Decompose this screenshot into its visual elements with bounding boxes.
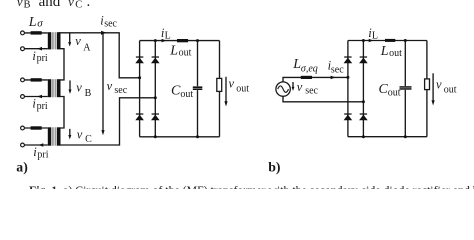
transformer A primary winding: [48, 32, 52, 49]
svg-text:and: and: [39, 0, 61, 10]
arrow i_pri C: [39, 143, 44, 147]
wire secondary series link B-C: [60, 97, 64, 129]
label C_out (b): [379, 82, 401, 99]
label i_L (a): [161, 26, 171, 42]
transformer C secondary winding: [57, 127, 61, 145]
diode D8 (b, right lower): [359, 113, 368, 120]
svg-text:v: v: [68, 0, 74, 9]
svg-text:.: .: [87, 0, 91, 10]
diode D7 (b, left lower): [344, 113, 353, 120]
transformer A primary terminal top: [21, 31, 25, 35]
load resistor (b): [425, 79, 430, 90]
transformer B secondary winding: [57, 79, 61, 97]
transformer A primary terminal bottom: [21, 47, 25, 51]
wire C primary top: [24, 127, 47, 129]
svg-text:v: v: [76, 81, 82, 95]
wire B primary top: [24, 79, 47, 81]
svg-text:v: v: [229, 77, 235, 91]
svg-text:a): a): [16, 159, 28, 175]
svg-text:pri: pri: [37, 149, 48, 160]
svg-text:b): b): [268, 159, 280, 175]
label v_sec (a): [107, 79, 128, 96]
bridge (a) left leg: [139, 41, 141, 137]
svg-text:out: out: [180, 89, 193, 100]
bridge (a) right leg: [154, 41, 156, 137]
wire load branch (a): [219, 41, 221, 137]
bridge (a) bottom rail: [140, 136, 220, 138]
svg-text:σ: σ: [37, 17, 43, 29]
inductor L_sigma_eq (b): [301, 76, 312, 79]
label i_sec (a): [100, 14, 117, 30]
svg-text:L: L: [165, 31, 171, 42]
arrow v_A: [69, 33, 71, 42]
label v_C: [77, 127, 92, 145]
label v_A: [75, 34, 91, 53]
arrow v_out (b): [432, 73, 434, 100]
arrow v_sec (b): [292, 82, 294, 87]
label i_pri C: [33, 145, 49, 160]
transformer B core: [52, 79, 56, 97]
junction dots (a): [138, 39, 199, 138]
svg-text:v: v: [107, 79, 113, 93]
svg-text:sec: sec: [331, 64, 344, 75]
svg-text:out: out: [389, 48, 402, 59]
bridge (b) top rail: [348, 40, 427, 42]
capacitor C_out (a): [193, 86, 203, 90]
label L_sigma: [28, 15, 44, 30]
label i_pri A: [32, 49, 48, 64]
bridge (b) bottom rail: [348, 136, 427, 138]
wire A primary bottom: [24, 48, 47, 50]
transformer C core: [52, 127, 56, 145]
transformer C primary terminal top: [21, 126, 25, 130]
bridge (b) left leg: [347, 41, 349, 137]
wire source top (b): [283, 77, 348, 82]
wire secondary bottom return: [60, 98, 155, 145]
svg-text:v: v: [77, 127, 83, 141]
label L_out (b): [380, 44, 402, 59]
label v_out (a): [229, 77, 250, 95]
wire B primary bottom: [24, 96, 47, 98]
bridge (b) right leg: [362, 41, 364, 137]
AC source (b): [276, 82, 290, 96]
arrow i_sec (b): [331, 76, 336, 80]
arrow i_L (b): [369, 39, 374, 43]
diode D4 (a, right lower): [151, 113, 160, 120]
label i_sec (b): [328, 58, 345, 75]
svg-text:C: C: [85, 134, 92, 145]
arrow v_C: [69, 129, 71, 136]
arrow i_L (a): [162, 39, 167, 43]
svg-text:v: v: [436, 77, 442, 91]
label L_sigma_eq (b): [292, 57, 317, 75]
svg-text:v: v: [297, 80, 303, 94]
label i_pri B: [32, 97, 48, 112]
svg-text:L: L: [28, 15, 37, 30]
arrow v_B: [69, 80, 71, 90]
svg-text:B: B: [24, 0, 31, 11]
label L_out (a): [169, 43, 191, 58]
svg-text:out: out: [179, 47, 192, 58]
wire secondary series link A-B: [60, 49, 64, 80]
svg-text:A: A: [83, 42, 91, 53]
svg-text:B: B: [85, 88, 92, 99]
label v_out (b): [436, 77, 457, 95]
svg-text:sec: sec: [104, 18, 117, 29]
arrow i_pri B: [37, 95, 42, 99]
transformer C primary terminal bottom: [21, 143, 25, 147]
wire A primary top: [24, 32, 47, 34]
svg-text:sec: sec: [305, 85, 318, 96]
transformer B primary winding: [48, 79, 52, 97]
inductor L_out (b): [385, 39, 395, 42]
label i_L (b): [368, 26, 378, 42]
svg-text:L: L: [169, 43, 178, 58]
transformer B primary terminal top: [21, 78, 25, 82]
svg-text:L: L: [380, 44, 389, 59]
load resistor (a): [217, 78, 222, 91]
wire C_out branch (b): [404, 41, 406, 137]
clipped text line top: v_B and v_C.: [17, 0, 90, 11]
svg-text:L: L: [372, 30, 378, 41]
svg-text:out: out: [444, 85, 457, 96]
diode D3 (a, left lower): [135, 113, 144, 120]
svg-text:sec: sec: [114, 85, 127, 96]
bridge (a) top rail: [140, 40, 220, 42]
svg-text:σ,eq: σ,eq: [301, 63, 318, 74]
transformer A core: [52, 32, 56, 49]
transformer C primary winding: [48, 127, 52, 145]
label v_B: [76, 81, 91, 100]
diode D1 (a, left upper): [135, 56, 144, 63]
svg-text:pri: pri: [37, 53, 48, 64]
wire load branch (b): [426, 41, 428, 137]
svg-text:v: v: [17, 0, 23, 9]
wire secondary top rail: [59, 33, 139, 78]
capacitor C_out (b): [400, 86, 412, 90]
svg-text:out: out: [388, 88, 401, 99]
svg-text:Fig. 1. a) Circuit diagram of: Fig. 1. a) Circuit diagram of the (MF) t…: [29, 183, 474, 189]
inductor L_sigma C: [31, 126, 42, 129]
arrow v_out (a): [225, 77, 227, 102]
diode D2 (a, right upper): [151, 56, 160, 63]
label C_out (a): [171, 83, 193, 100]
transformer B primary terminal bottom: [21, 95, 25, 99]
transformer A secondary winding: [57, 32, 61, 49]
svg-text:C: C: [75, 0, 82, 11]
arrow i_pri A: [37, 47, 42, 51]
inductor L_sigma A: [31, 31, 42, 34]
label v_sec (b): [297, 80, 319, 96]
clipped caption line bottom: [29, 183, 474, 197]
svg-text:out: out: [236, 84, 249, 95]
svg-text:v: v: [75, 34, 81, 48]
junction dots (b): [346, 39, 406, 138]
arrow v_sec (a): [102, 34, 104, 131]
inductor L_out (a): [177, 39, 188, 42]
diode D6 (b, right upper): [359, 56, 368, 63]
inductor L_sigma B: [31, 78, 42, 81]
wire source bottom (b): [283, 96, 363, 102]
svg-text:pri: pri: [37, 101, 48, 112]
arrow i_sec (a): [101, 31, 107, 35]
wire C primary bottom: [24, 144, 47, 146]
wire C_out branch (a): [197, 41, 199, 137]
diode D5 (b, left upper): [344, 56, 353, 63]
